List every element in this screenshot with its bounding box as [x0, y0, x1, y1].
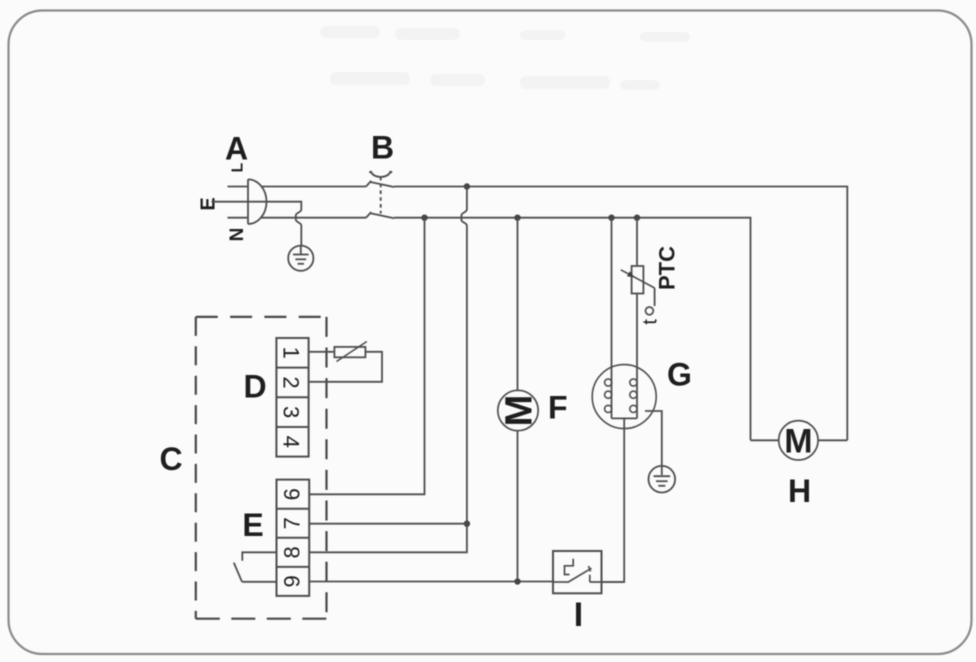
svg-text:4: 4: [279, 436, 304, 448]
wire: stub motor H right to L bus corner: [818, 439, 847, 441]
motor F circle: [498, 390, 538, 430]
thermal switch arm below PTC: [654, 288, 656, 306]
ground symbol (compressor): [649, 466, 676, 493]
G winding loops (main): [605, 379, 612, 413]
svg-text:8: 8: [280, 546, 305, 558]
wire: I box right to G common riser: [590, 581, 624, 583]
junction dot on N bus (x517): [514, 215, 520, 221]
PTC thermistor body: [632, 266, 644, 294]
svg-text:M: M: [784, 422, 812, 460]
svg-text:PTC: PTC: [655, 246, 680, 290]
junction dot on N bus (x637): [634, 215, 640, 221]
plug prong N: [228, 217, 249, 219]
switch B linkage dashed line: [380, 177, 382, 214]
plug prong E: [212, 201, 267, 203]
svg-text:G: G: [667, 357, 692, 393]
wire: terminal 7 to vertical: [309, 523, 467, 525]
svg-text:D: D: [243, 369, 266, 405]
svg-text:7: 7: [280, 517, 305, 529]
wire: from L bus down (jog over N bus) to terminal 8 corner: [309, 187, 467, 553]
svg-text:L: L: [229, 162, 246, 172]
wire: N bus down to motor F: [517, 218, 519, 391]
svg-text:B: B: [371, 130, 394, 166]
svg-text:6: 6: [280, 488, 305, 500]
switch I internal contact lead: [589, 575, 591, 582]
wire: terminal 9 to switch I: [309, 581, 553, 583]
svg-text:A: A: [225, 131, 248, 167]
terminal block D: [276, 338, 308, 457]
wire: varistor loop back to terminal 2: [309, 352, 382, 382]
varistor strike: [337, 342, 367, 362]
wire: N bus from switch B to right corner: [394, 218, 751, 441]
wire: motor F down to terminal 9 line: [517, 431, 519, 582]
G winding loops (start): [630, 379, 637, 413]
door switch stub to terminal 9: [242, 581, 277, 583]
svg-text:N: N: [227, 228, 248, 242]
junction dot on N bus (x611): [608, 215, 614, 221]
svg-text:I: I: [574, 596, 583, 634]
ground symbol (plug earth): [288, 246, 313, 271]
plug A body: [248, 179, 267, 224]
wire: G common down and left to switch I: [602, 418, 625, 582]
wire: terminal 1 to varistor: [309, 351, 335, 353]
svg-text:C: C: [159, 441, 182, 477]
junction dot on N bus (x424): [421, 215, 427, 221]
motor H circle: [779, 421, 818, 460]
wire: from N bus down to terminal 6: [309, 218, 425, 495]
terminal block E: [277, 480, 310, 596]
PTC strike arrow: [621, 270, 655, 288]
svg-text:F: F: [548, 390, 568, 426]
wire: G tap to ground: [645, 411, 662, 466]
svg-text:H: H: [788, 473, 811, 509]
wire: PTC down to compressor G start winding: [636, 294, 638, 419]
svg-text:3: 3: [279, 406, 304, 418]
dashed enclosure C: [196, 317, 327, 619]
wire: N bus down to compressor G main winding: [611, 218, 613, 419]
thermal switch contact: [646, 307, 654, 315]
switch I internal sensor hook: [565, 559, 574, 575]
compressor G circle: [592, 365, 656, 429]
wire: L bus from switch B to right edge corner: [394, 187, 847, 441]
door switch arm: [234, 563, 242, 582]
wire: L bus from plug to switch B: [262, 186, 367, 188]
wire: through I box left: [553, 581, 568, 583]
varistor body: [334, 347, 365, 357]
svg-text:E: E: [242, 507, 263, 543]
wire: N bus down to PTC: [636, 218, 638, 266]
plug prong L: [228, 186, 249, 188]
junction dot (motor F to terminal 9 wire): [514, 578, 520, 584]
svg-text:M: M: [499, 395, 541, 427]
wire: N bus from plug to switch B: [261, 217, 366, 219]
svg-text:9: 9: [280, 575, 305, 587]
svg-text:1: 1: [279, 347, 304, 359]
defrost switch I box: [553, 551, 602, 593]
svg-text:2: 2: [279, 376, 304, 388]
svg-text:t: t: [640, 319, 662, 325]
switch I internal arm: [568, 566, 592, 583]
svg-text:E: E: [197, 197, 219, 210]
wire: stub N bus corner to motor H left: [751, 439, 779, 441]
junction dot terminal 7 tap: [464, 521, 470, 527]
switch B pole 2 (contact nib + arm): [366, 212, 394, 218]
junction dot on L bus (x467): [464, 183, 470, 189]
door switch stub from terminal 8: [242, 552, 276, 561]
switch B actuator symbol: [370, 171, 392, 177]
wire: earth wire from plug to ground A (with jog over N line): [267, 202, 302, 246]
G bottom connector: [612, 417, 638, 419]
switch B pole 1 (contact nib + arm): [366, 181, 394, 187]
